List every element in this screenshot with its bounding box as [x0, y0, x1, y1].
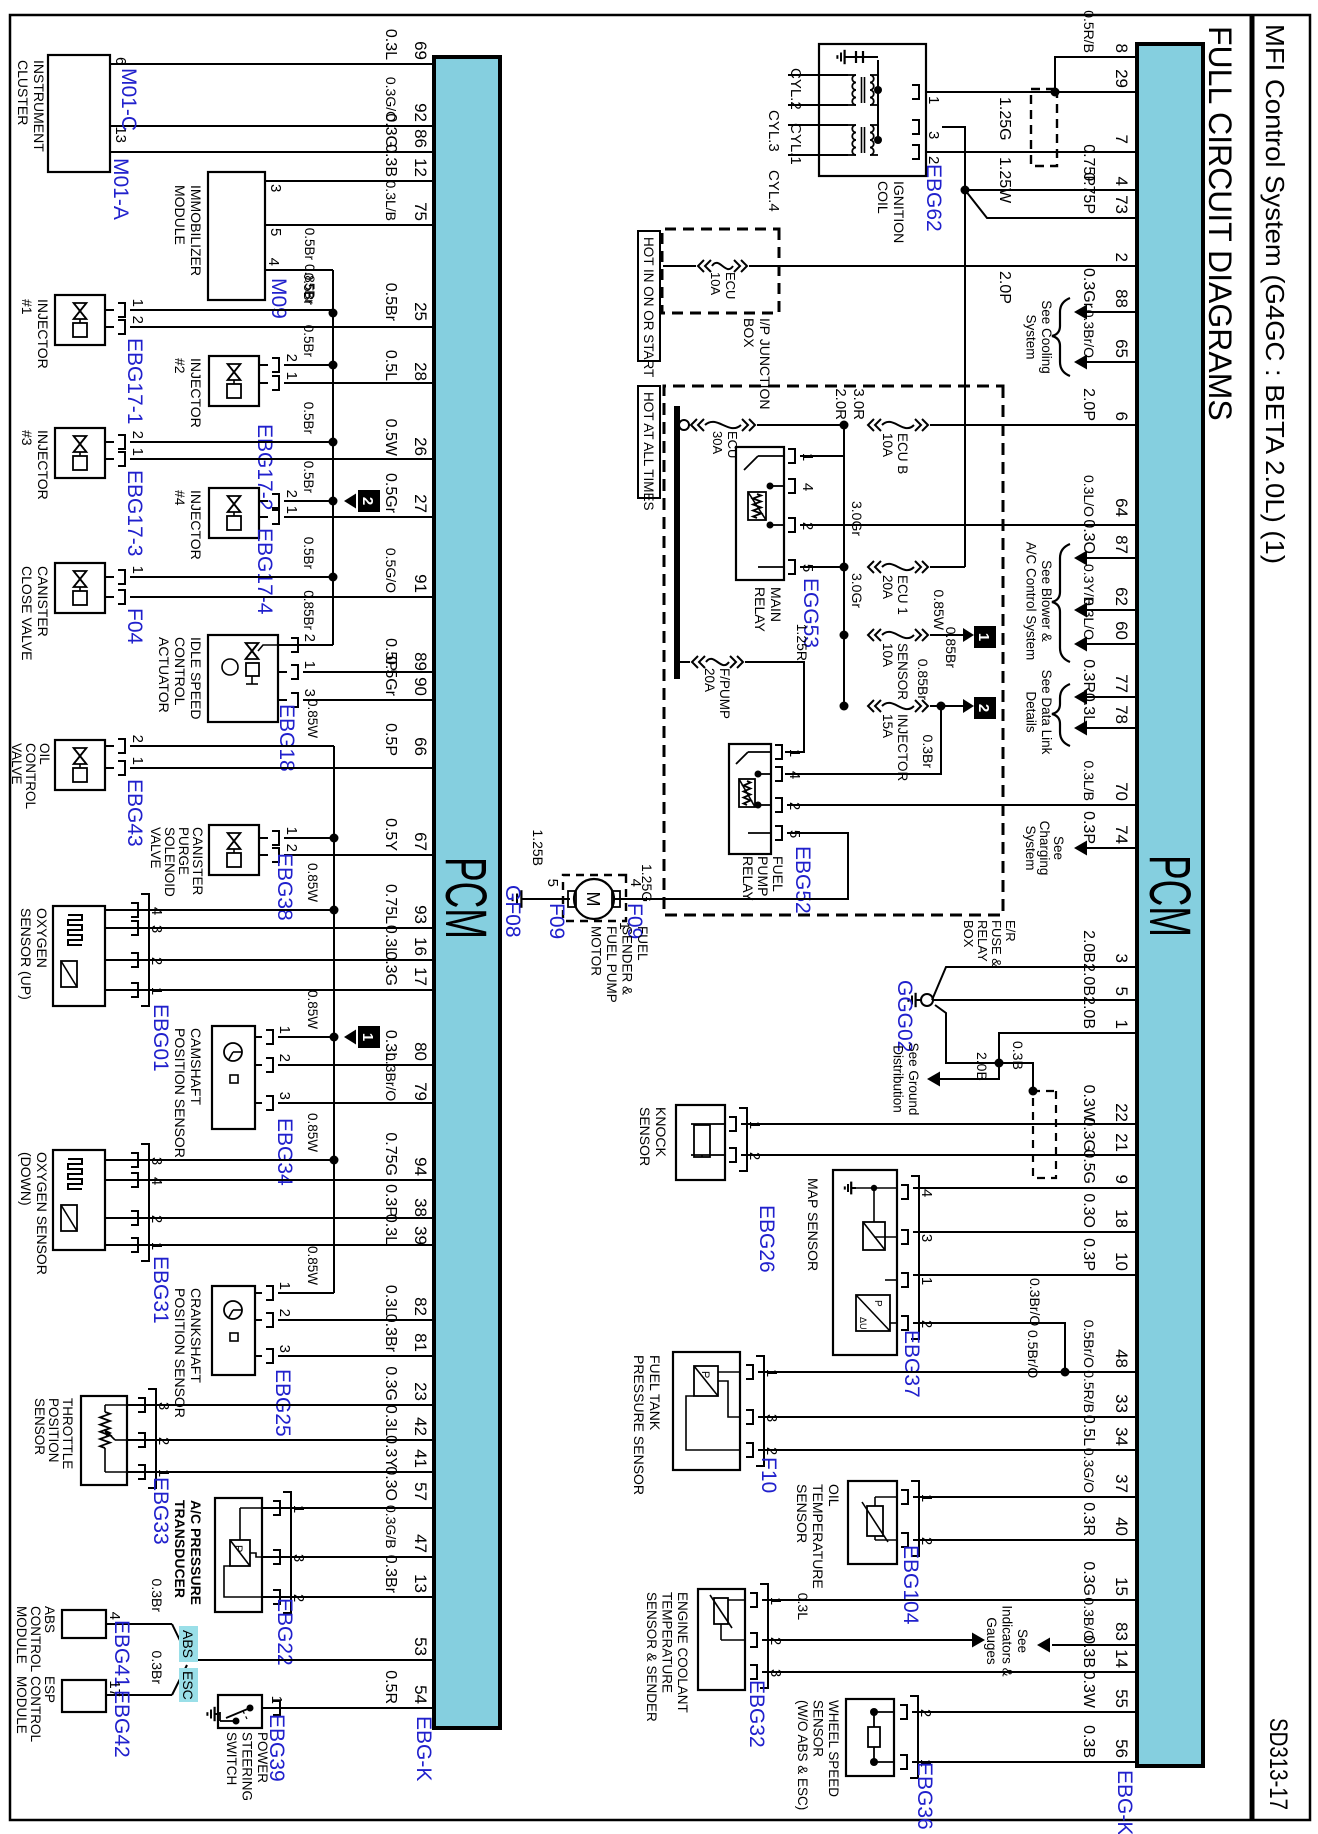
svg-text:54: 54 [411, 1685, 430, 1704]
HOT IN ON OR START label box [638, 231, 660, 361]
svg-text:13: 13 [411, 1574, 430, 1593]
svg-text:41: 41 [411, 1449, 430, 1468]
svg-text:0.5R/B: 0.5R/B [1081, 10, 1097, 53]
oxygen sensor (DOWN) EBG31 [53, 1144, 434, 1261]
A/C pressure transducer EBG22 [215, 1492, 434, 1613]
svg-text:CRANKSHAFT: CRANKSHAFT [188, 1288, 204, 1383]
svg-text:82: 82 [411, 1297, 430, 1316]
svg-text:29: 29 [1112, 69, 1131, 88]
svg-text:0.85Br: 0.85Br [915, 659, 931, 701]
wire pin29 1.25G to coil pin1 [942, 91, 1137, 93]
svg-text:4: 4 [627, 879, 644, 887]
svg-text:OXYGEN: OXYGEN [34, 908, 50, 968]
svg-text:2.0B: 2.0B [1080, 930, 1097, 963]
svg-text:Indicators &: Indicators & [1000, 1605, 1015, 1676]
svg-text:0.3L/B: 0.3L/B [383, 181, 399, 221]
svg-text:CYL.4: CYL.4 [765, 170, 782, 212]
fuse ECU 30A [679, 419, 844, 458]
svg-text:0.3L/O: 0.3L/O [1081, 475, 1097, 517]
svg-text:80: 80 [411, 1042, 430, 1061]
svg-text:0.85W: 0.85W [305, 1246, 320, 1285]
svg-text:GF08: GF08 [501, 885, 524, 938]
svg-text:5: 5 [267, 228, 284, 236]
fuse F/PUMP 20A [680, 624, 810, 752]
svg-text:73: 73 [1112, 195, 1131, 214]
svg-text:M01-C: M01-C [117, 68, 140, 131]
svg-text:1: 1 [283, 827, 300, 835]
ground GF08 1.25B [513, 829, 546, 907]
svg-text:1: 1 [925, 96, 942, 104]
wire pin8 0.5R/B joining 1.25G [1055, 57, 1137, 92]
svg-text:I/P JUNCTION: I/P JUNCTION [757, 318, 773, 410]
svg-text:0.3Gr: 0.3Gr [1080, 268, 1097, 309]
svg-text:A/C PRESSURE: A/C PRESSURE [188, 1500, 204, 1605]
svg-text:0.5P: 0.5P [382, 723, 399, 756]
svg-text:0.85W: 0.85W [305, 699, 320, 738]
svg-text:4: 4 [799, 483, 816, 491]
svg-text:66: 66 [411, 737, 430, 756]
canister purge solenoid valve EBG38 [209, 825, 434, 875]
svg-text:6: 6 [1112, 412, 1131, 421]
svg-text:37: 37 [1112, 1474, 1131, 1493]
svg-text:0.3P: 0.3P [382, 1184, 399, 1217]
svg-text:92: 92 [411, 103, 430, 122]
svg-text:M01-A: M01-A [109, 158, 132, 220]
svg-text:38: 38 [411, 1198, 430, 1217]
svg-text:0.3L: 0.3L [382, 1285, 399, 1316]
svg-text:33: 33 [1112, 1394, 1131, 1413]
svg-text:FUSE &: FUSE & [989, 920, 1004, 967]
svg-text:FUEL PUMP: FUEL PUMP [604, 926, 619, 1003]
marker 1 at heater rail [344, 1026, 380, 1048]
svg-text:ECU: ECU [725, 431, 740, 458]
see cooling system reference (pins 88 65) [1024, 298, 1138, 376]
svg-text:STEERING: STEERING [240, 1732, 255, 1801]
heater supply rail 0.85W (oil control valve to crankshaft sensor) [130, 746, 339, 1293]
svg-text:PCM: PCM [1137, 855, 1202, 937]
svg-text:47: 47 [411, 1534, 430, 1553]
svg-text:MFI Control System (G4GC : BET: MFI Control System (G4GC : BETA 2.0L) (1… [1260, 24, 1290, 564]
svg-text:0.5Br/O: 0.5Br/O [1025, 1330, 1041, 1378]
svg-text:48: 48 [1112, 1349, 1131, 1368]
svg-text:SENSOR: SENSOR [794, 1484, 810, 1543]
svg-text:91: 91 [411, 574, 430, 593]
svg-text:4: 4 [265, 258, 282, 266]
svg-text:FUEL: FUEL [635, 926, 650, 961]
svg-text:0.3L: 0.3L [382, 1405, 399, 1436]
svg-text:3.0Gr: 3.0Gr [849, 573, 865, 608]
wire coil pin3 ignition feed from ECU1 fuse [942, 127, 965, 567]
svg-text:1: 1 [746, 1121, 763, 1129]
fuse ECU B 10A [832, 388, 1137, 474]
svg-text:EBG25: EBG25 [271, 1369, 294, 1437]
svg-text:1: 1 [975, 633, 992, 641]
I/P junction box (dashed) [662, 229, 779, 313]
svg-text:78: 78 [1112, 705, 1131, 724]
svg-text:1: 1 [276, 1026, 293, 1034]
crankshaft position sensor EBG25 [212, 1282, 434, 1375]
svg-text:0.3B: 0.3B [1010, 1041, 1026, 1070]
svg-text:M09: M09 [267, 278, 290, 319]
svg-text:F09: F09 [545, 903, 568, 939]
svg-text:MODULE: MODULE [14, 1606, 29, 1664]
svg-text:1: 1 [283, 506, 300, 514]
svg-text:1: 1 [1112, 1020, 1131, 1029]
svg-text:0.5Br: 0.5Br [301, 537, 316, 570]
svg-text:POSITION SENSOR: POSITION SENSOR [172, 1028, 188, 1158]
immobilizer module M09 [208, 172, 434, 300]
svg-text:ACTUATOR: ACTUATOR [156, 637, 172, 713]
svg-text:CLUSTER: CLUSTER [15, 60, 31, 125]
svg-text:2: 2 [283, 844, 300, 852]
svg-text:90: 90 [411, 677, 430, 696]
condenser dashed box [1031, 89, 1057, 166]
svg-text:53: 53 [411, 1637, 430, 1656]
svg-text:BOX: BOX [961, 920, 976, 948]
svg-text:2: 2 [129, 316, 146, 324]
svg-text:VALVE: VALVE [9, 743, 24, 785]
wire main relay pin5 through ECU1 fuse [800, 501, 965, 615]
svg-text:65: 65 [1112, 339, 1131, 358]
svg-text:RELAY: RELAY [975, 920, 990, 962]
svg-text:POSITION: POSITION [46, 1398, 61, 1463]
E/R fuse & relay box (dashed) [664, 386, 1003, 915]
PCM connector bar (bottom) [434, 57, 500, 1728]
wire main relay pin2 to PCM64 [800, 524, 1137, 526]
svg-text:89: 89 [411, 652, 430, 671]
svg-text:42: 42 [411, 1417, 430, 1436]
svg-text:MOTOR: MOTOR [589, 926, 604, 976]
svg-text:SENSOR: SENSOR [895, 643, 910, 700]
wire pin7 1.25W to coil pin2 [942, 151, 1137, 153]
svg-text:3: 3 [276, 1092, 293, 1100]
svg-text:0.5Br/O: 0.5Br/O [1081, 1320, 1097, 1368]
svg-text:28: 28 [411, 362, 430, 381]
wire main relay pin1 feed [800, 425, 844, 456]
svg-text:0.5R: 0.5R [382, 1670, 399, 1704]
svg-text:67: 67 [411, 832, 430, 851]
svg-text:0.5Br: 0.5Br [301, 402, 316, 435]
svg-text:See Data Link: See Data Link [1039, 670, 1054, 755]
wire 0.3B shield drain [999, 1041, 1038, 1096]
svg-text:20A: 20A [880, 575, 895, 599]
svg-text:0.85Br: 0.85Br [943, 627, 959, 669]
ESP control module EBG42 [62, 1680, 172, 1712]
svg-text:FULL CIRCUIT DIAGRAMS: FULL CIRCUIT DIAGRAMS [1202, 26, 1238, 421]
svg-text:23: 23 [411, 1382, 430, 1401]
svg-text:0.3Br: 0.3Br [149, 1651, 165, 1685]
svg-text:14: 14 [1112, 1649, 1131, 1668]
svg-text:EBG37: EBG37 [900, 1330, 923, 1398]
svg-text:0.75P: 0.75P [1080, 172, 1097, 214]
oil control valve EBG43 [55, 735, 434, 790]
svg-text:POSITION SENSOR: POSITION SENSOR [172, 1288, 188, 1418]
svg-text:2.0B: 2.0B [1080, 996, 1097, 1029]
svg-text:34: 34 [1112, 1427, 1131, 1446]
svg-text:EBG41: EBG41 [110, 1620, 133, 1688]
svg-text:EBG33: EBG33 [149, 1477, 172, 1545]
svg-text:0.3L/O: 0.3L/O [1081, 598, 1097, 640]
svg-text:ENGINE COOLANT: ENGINE COOLANT [675, 1592, 690, 1713]
svg-text:Charging: Charging [1037, 821, 1052, 876]
svg-text:79: 79 [411, 1082, 430, 1101]
svg-text:CANISTER: CANISTER [35, 566, 51, 637]
svg-text:EBG52: EBG52 [791, 846, 814, 914]
svg-text:KNOCK: KNOCK [653, 1107, 669, 1157]
svg-text:3: 3 [301, 689, 318, 697]
svg-text:SD313-17: SD313-17 [1264, 1718, 1292, 1810]
svg-text:FUEL: FUEL [770, 856, 786, 892]
svg-text:EBG17-3: EBG17-3 [123, 470, 146, 556]
svg-text:83: 83 [1112, 1622, 1131, 1641]
svg-text:17: 17 [411, 967, 430, 986]
svg-text:0.3L: 0.3L [795, 1593, 811, 1620]
svg-text:WHEEL SPEED: WHEEL SPEED [826, 1700, 841, 1797]
fuel tank pressure sensor F10 [673, 1352, 1137, 1470]
svg-text:SENSOR: SENSOR [637, 1107, 653, 1166]
svg-text:3: 3 [267, 184, 284, 192]
svg-text:A/C Control System: A/C Control System [1024, 542, 1039, 661]
wire pin53 merge from ABS and ESC [149, 1579, 434, 1695]
svg-text:2: 2 [746, 1152, 763, 1160]
svg-text:0.3L/B: 0.3L/B [1081, 761, 1097, 801]
HOT AT ALL TIMES label box [638, 386, 660, 498]
svg-text:0.5Y: 0.5Y [382, 818, 399, 851]
svg-text:BOX: BOX [741, 318, 757, 348]
svg-text:INJECTOR: INJECTOR [895, 714, 910, 782]
svg-text:0.5L: 0.5L [382, 350, 399, 381]
oxygen sensor (UP) EBG01 [53, 894, 434, 1006]
svg-text:0.3B: 0.3B [1080, 1725, 1097, 1758]
svg-text:10A: 10A [880, 643, 895, 667]
svg-text:TRANSDUCER: TRANSDUCER [172, 1500, 188, 1598]
ABS option tag [179, 1626, 198, 1662]
svg-text:IDLE SPEED: IDLE SPEED [188, 637, 204, 719]
svg-text:1.25W: 1.25W [996, 157, 1013, 204]
svg-text:10A: 10A [880, 433, 895, 457]
svg-text:60: 60 [1112, 621, 1131, 640]
MAP sensor EBG37 [833, 1170, 1137, 1372]
svg-text:INJECTOR: INJECTOR [188, 358, 204, 428]
svg-text:0.5Br: 0.5Br [301, 325, 316, 358]
svg-text:0.3B: 0.3B [382, 144, 399, 177]
svg-text:0.5Gr: 0.5Gr [382, 656, 399, 697]
knock sensor shield (dashed) [1033, 1091, 1056, 1178]
svg-text:CYL.3: CYL.3 [765, 110, 782, 152]
svg-text:18: 18 [1112, 1209, 1131, 1228]
engine coolant temperature sensor & sender EBG32 [698, 1584, 1137, 1690]
svg-text:1: 1 [129, 448, 146, 456]
svg-text:0.85W: 0.85W [305, 990, 320, 1029]
svg-text:EBG17-1: EBG17-1 [123, 338, 146, 424]
ignition coil internals (two coil pairs, condenser, ground) [837, 50, 882, 155]
svg-text:TEMPERATURE: TEMPERATURE [810, 1484, 826, 1589]
svg-text:EBG43: EBG43 [123, 779, 146, 847]
svg-text:MODULE: MODULE [14, 1676, 29, 1734]
svg-text:VALVE: VALVE [148, 827, 163, 869]
svg-text:SENSOR: SENSOR [32, 1398, 47, 1455]
fuse SENSOR 10A to marker 1 [868, 590, 996, 701]
svg-text:0.3Br: 0.3Br [149, 1579, 165, 1613]
svg-text:INJECTOR: INJECTOR [35, 299, 51, 369]
see blower & A/C control system reference (pins 87 62 60) [1024, 542, 1138, 662]
svg-text:EBG34: EBG34 [273, 1118, 296, 1186]
svg-text:1: 1 [359, 1033, 376, 1041]
throttle position sensor EBG33 [81, 1389, 434, 1488]
svg-text:0.5Br: 0.5Br [382, 283, 399, 322]
svg-text:MAP SENSOR: MAP SENSOR [805, 1178, 821, 1271]
oil temperature sensor EBG104 [848, 1481, 1137, 1564]
svg-text:94: 94 [411, 1157, 430, 1176]
svg-text:0.85W: 0.85W [305, 1113, 320, 1152]
marker 2 at injector rail [344, 490, 380, 512]
svg-text:CYL.1: CYL.1 [787, 123, 804, 165]
ABS control module EBG41 [62, 1610, 172, 1638]
svg-text:EBG-K: EBG-K [412, 1716, 435, 1781]
PCM connector bar (top) [1137, 44, 1203, 1766]
svg-text:EBG32: EBG32 [745, 1680, 768, 1748]
svg-text:81: 81 [411, 1333, 430, 1352]
svg-text:Details: Details [1024, 691, 1039, 733]
wire pin73 0.75P diagonal [965, 190, 1137, 218]
svg-text:PRESSURE SENSOR: PRESSURE SENSOR [631, 1355, 647, 1495]
svg-text:0.3G: 0.3G [382, 951, 399, 986]
svg-text:8: 8 [1112, 44, 1131, 53]
svg-text:4: 4 [786, 771, 803, 779]
svg-text:2: 2 [975, 704, 992, 712]
svg-text:88: 88 [1112, 289, 1131, 308]
svg-text:0.3G: 0.3G [382, 113, 399, 148]
svg-text:5: 5 [1112, 987, 1131, 996]
svg-text:Distribution: Distribution [891, 1045, 906, 1113]
fuel pump relay EBG52 [729, 744, 803, 854]
svg-text:See: See [1015, 1629, 1030, 1653]
svg-text:2.0P: 2.0P [1080, 388, 1097, 421]
svg-text:1.25R: 1.25R [794, 624, 810, 661]
svg-text:GGG02: GGG02 [893, 980, 916, 1052]
svg-text:12: 12 [411, 158, 430, 177]
svg-text:HOT AT ALL TIMES: HOT AT ALL TIMES [641, 392, 656, 511]
ignition coil connector pins 1 3 2 [912, 85, 1137, 164]
svg-text:2: 2 [129, 431, 146, 439]
wire fuel pump relay pin4 0.3Br from injector fuse node [785, 706, 941, 774]
svg-text:2: 2 [283, 354, 300, 362]
svg-text:69: 69 [411, 41, 430, 60]
fuse ECU 10A in I/P box [749, 265, 1137, 267]
canister close valve F04 [55, 563, 434, 613]
svg-text:THROTTLE: THROTTLE [60, 1398, 75, 1469]
svg-text:0.3Br/O: 0.3Br/O [383, 1053, 399, 1101]
svg-text:3: 3 [918, 1234, 935, 1242]
svg-text:56: 56 [1112, 1739, 1131, 1758]
svg-text:EBG17-4: EBG17-4 [253, 528, 276, 615]
svg-text:2: 2 [276, 1309, 293, 1317]
svg-text:0.3G/O: 0.3G/O [1081, 1448, 1097, 1493]
svg-text:0.3R: 0.3R [1080, 1502, 1097, 1536]
svg-text:0.5W: 0.5W [382, 419, 399, 457]
svg-text:EBG26: EBG26 [755, 1205, 778, 1273]
svg-text:0.5R/B: 0.5R/B [1081, 1370, 1097, 1413]
svg-text:EBG104: EBG104 [899, 1545, 922, 1625]
svg-text:HOT IN ON OR START: HOT IN ON OR START [641, 237, 656, 377]
svg-text:0.85W: 0.85W [305, 863, 320, 902]
svg-text:EBG01: EBG01 [149, 1004, 172, 1072]
wire fuel pump relay pin2 to PCM70 [787, 804, 1137, 806]
svg-text:0.5Br: 0.5Br [301, 273, 316, 306]
svg-text:55: 55 [1112, 1689, 1131, 1708]
svg-text:9: 9 [1112, 1175, 1131, 1184]
svg-text:20A: 20A [702, 668, 717, 692]
svg-text:25: 25 [411, 302, 430, 321]
bottom PCM bar pin numbers and wire gauge labels [382, 29, 430, 1704]
svg-text:0.3O: 0.3O [1080, 1193, 1097, 1228]
svg-text:2.0B: 2.0B [1080, 963, 1097, 996]
svg-text:SWITCH: SWITCH [224, 1732, 239, 1785]
svg-text:See Ground: See Ground [906, 1043, 921, 1116]
svg-text:OIL: OIL [826, 1484, 842, 1507]
svg-text:P: P [699, 1371, 711, 1378]
svg-text:EBG36: EBG36 [913, 1762, 936, 1830]
svg-text:PURGE: PURGE [176, 827, 191, 875]
svg-text:16: 16 [411, 937, 430, 956]
svg-text:RELAY: RELAY [752, 587, 768, 633]
injector #2 EBG17-2 [209, 354, 434, 406]
svg-text:INJECTOR: INJECTOR [35, 430, 51, 500]
svg-text:0.5Br: 0.5Br [302, 228, 317, 261]
rail 0.5Br feeder labels [301, 273, 316, 631]
instrument cluster M01 [48, 55, 434, 172]
junction rail dots (main relay feeds) [840, 421, 849, 707]
ignition coil CYL stub wires and labels [765, 68, 848, 212]
svg-text:0.3G/B: 0.3G/B [383, 1505, 399, 1549]
svg-text:2: 2 [129, 735, 146, 743]
svg-text:ECU B: ECU B [895, 433, 910, 474]
svg-text:5: 5 [544, 879, 561, 887]
see indicators & gauges reference (coolant pin2 / pin83) [762, 1593, 1137, 1677]
svg-text:SENSOR & SENDER: SENSOR & SENDER [644, 1592, 659, 1722]
title separator line [1250, 15, 1255, 1820]
svg-text:0.3G: 0.3G [382, 1366, 399, 1401]
svg-text:0.3W: 0.3W [1080, 1671, 1097, 1709]
injector #1 EBG17-1 [55, 295, 434, 345]
svg-text:22: 22 [1112, 1103, 1131, 1122]
svg-text:93: 93 [411, 905, 430, 924]
svg-text:COIL: COIL [875, 181, 891, 214]
svg-text:1: 1 [786, 749, 803, 757]
svg-text:ABS: ABS [180, 1630, 196, 1658]
svg-text:MAIN: MAIN [768, 587, 784, 622]
svg-text:87: 87 [1112, 535, 1131, 554]
svg-text:EBG42: EBG42 [110, 1690, 133, 1758]
svg-text:40: 40 [1112, 1517, 1131, 1536]
injector supply rail 0.5Br (from immobilizer pin4) [265, 228, 338, 645]
svg-text:ECU: ECU [723, 272, 738, 299]
svg-text:1: 1 [301, 661, 318, 669]
svg-text:15A: 15A [880, 714, 895, 738]
svg-text:10A: 10A [708, 272, 723, 295]
svg-text:P: P [232, 1545, 244, 1552]
knock sensor EBG26 [676, 1105, 1137, 1180]
svg-text:F/PUMP: F/PUMP [717, 668, 732, 719]
svg-text:ECU 1: ECU 1 [895, 575, 910, 615]
svg-text:SENSOR: SENSOR [811, 1700, 826, 1757]
svg-text:0.3P: 0.3P [1080, 811, 1097, 844]
ground at power steering switch [207, 1707, 220, 1721]
svg-text:(W/O ABS & ESC): (W/O ABS & ESC) [795, 1700, 810, 1810]
svg-text:M: M [583, 892, 603, 907]
svg-text:SOLENOID: SOLENOID [162, 827, 177, 897]
svg-text:F04: F04 [123, 608, 146, 645]
